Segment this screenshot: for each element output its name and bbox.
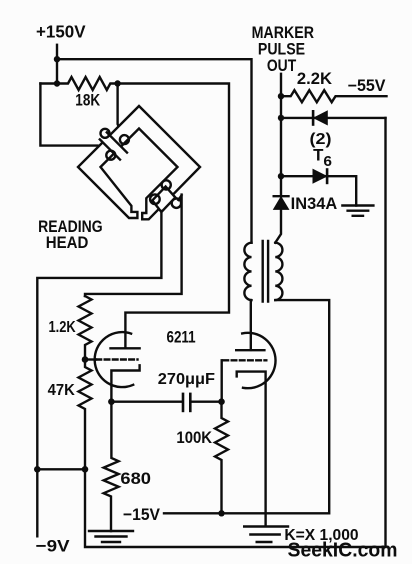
diode D2 (2) T6 upper, cathode-left, row to right rail [281,117,386,119]
junction +150V / 18K left [54,80,60,86]
wire 18K-left rectangle to reading head upper coil [40,84,104,152]
node MARKER PULSE OUT lead [280,74,282,196]
svg-text:−55V: −55V [348,77,386,95]
triode U1b plate lead from transformer [250,300,252,350]
reading head lower winding loops [150,194,160,204]
ground under 680 [89,531,133,542]
junction right grid / C1 / 100K [218,398,225,405]
svg-text:47K: 47K [48,382,76,399]
svg-text:+150V: +150V [36,22,86,42]
svg-text:270μμF: 270μμF [158,371,215,388]
svg-text:IN34A: IN34A [291,195,338,213]
reading head upper winding ribbon [100,132,127,159]
junction 18K right / head upper winding / plate link [114,80,120,86]
node +150V supply lead [56,45,58,84]
reading head upper winding loops [101,129,110,138]
resistor R2 1.2K [79,296,92,360]
triode U1b cathode [237,372,266,527]
svg-text:680: 680 [120,469,151,488]
svg-text:−15V: −15V [123,505,161,524]
junction left cathode / C1 / 680 [108,398,115,405]
ground for D3 [342,206,373,216]
svg-text:18K: 18K [75,91,100,110]
capacitor C1 right wire [192,401,222,403]
triode U1a grid (dashed) [85,358,96,360]
svg-text:SeekIC.com: SeekIC.com [288,538,398,561]
svg-text:6211: 6211 [167,328,196,346]
junction 47K / -9V link [82,466,89,473]
wire transformer secondary top jog to 1N34A [275,209,281,243]
svg-text:HEAD: HEAD [46,233,89,252]
reading head lower winding ribbon [152,187,175,213]
svg-text:−9V: −9V [36,537,71,556]
junction marker line / 2.2K [278,93,284,99]
wire -15V line [164,300,329,513]
capacitor C1 270uuF left wire [111,401,181,403]
junction marker line / diode D3 row [278,173,284,179]
transformer T1 secondary (right winding) [275,243,282,300]
reading head core (rotated square ring with gap) [78,106,200,219]
svg-text:2.2K: 2.2K [297,70,332,88]
resistor R1 18K with left lead [40,77,117,90]
svg-text:6: 6 [323,154,332,170]
diode D1 1N34A (pointing up) [274,195,289,197]
triode U1a plate [111,347,140,349]
svg-text:PULSE: PULSE [258,41,305,59]
ground under right cathode [244,527,288,543]
resistor R6 2.2K row to -55V [281,90,387,102]
svg-text:1.2K: 1.2K [49,319,77,336]
junction 100K / -15V line [218,510,224,516]
svg-text:OUT: OUT [267,57,296,75]
svg-text:MARKER: MARKER [252,24,314,42]
junction marker line / diode D2 row [278,115,284,121]
triode U1a cathode [111,365,139,401]
wire 47K bottom to bottom rail [85,118,386,547]
wire head-coil upper lead to 18K-right node [118,84,123,135]
diode D3 T6 lower, cathode-right, to ground [281,176,356,205]
wire head lower winding lead A to -9V rail [37,211,161,536]
wire top rail from +150V to transformer primary top [57,59,252,243]
junction +150V rail / top rail [54,56,60,62]
junction left grid / 1.2K / 47K [82,356,89,363]
junction -9V lead / link [34,466,41,473]
svg-text:100K: 100K [176,429,212,447]
svg-text:T: T [313,147,323,165]
resistor R3 47K [79,360,92,470]
resistor R4 680 [104,402,119,531]
triode U1b plate [236,349,264,351]
transformer T1 primary (left winding) [244,243,251,300]
triode U1b grid (dashed) with lead to C1 node [220,360,222,401]
triode U1b right envelope [242,333,275,388]
wire -9V rail link to 47K bottom [37,468,85,470]
wire 18K-right to left tube plate (routed around head) [118,84,229,348]
svg-text:(2): (2) [310,131,332,148]
triode U1a left envelope [95,332,134,387]
resistor R5 100K [215,402,228,514]
wire head lower winding lead B to 1.2K [85,195,182,296]
capacitor C1 plates [182,394,185,411]
transformer T1 core [263,241,268,302]
